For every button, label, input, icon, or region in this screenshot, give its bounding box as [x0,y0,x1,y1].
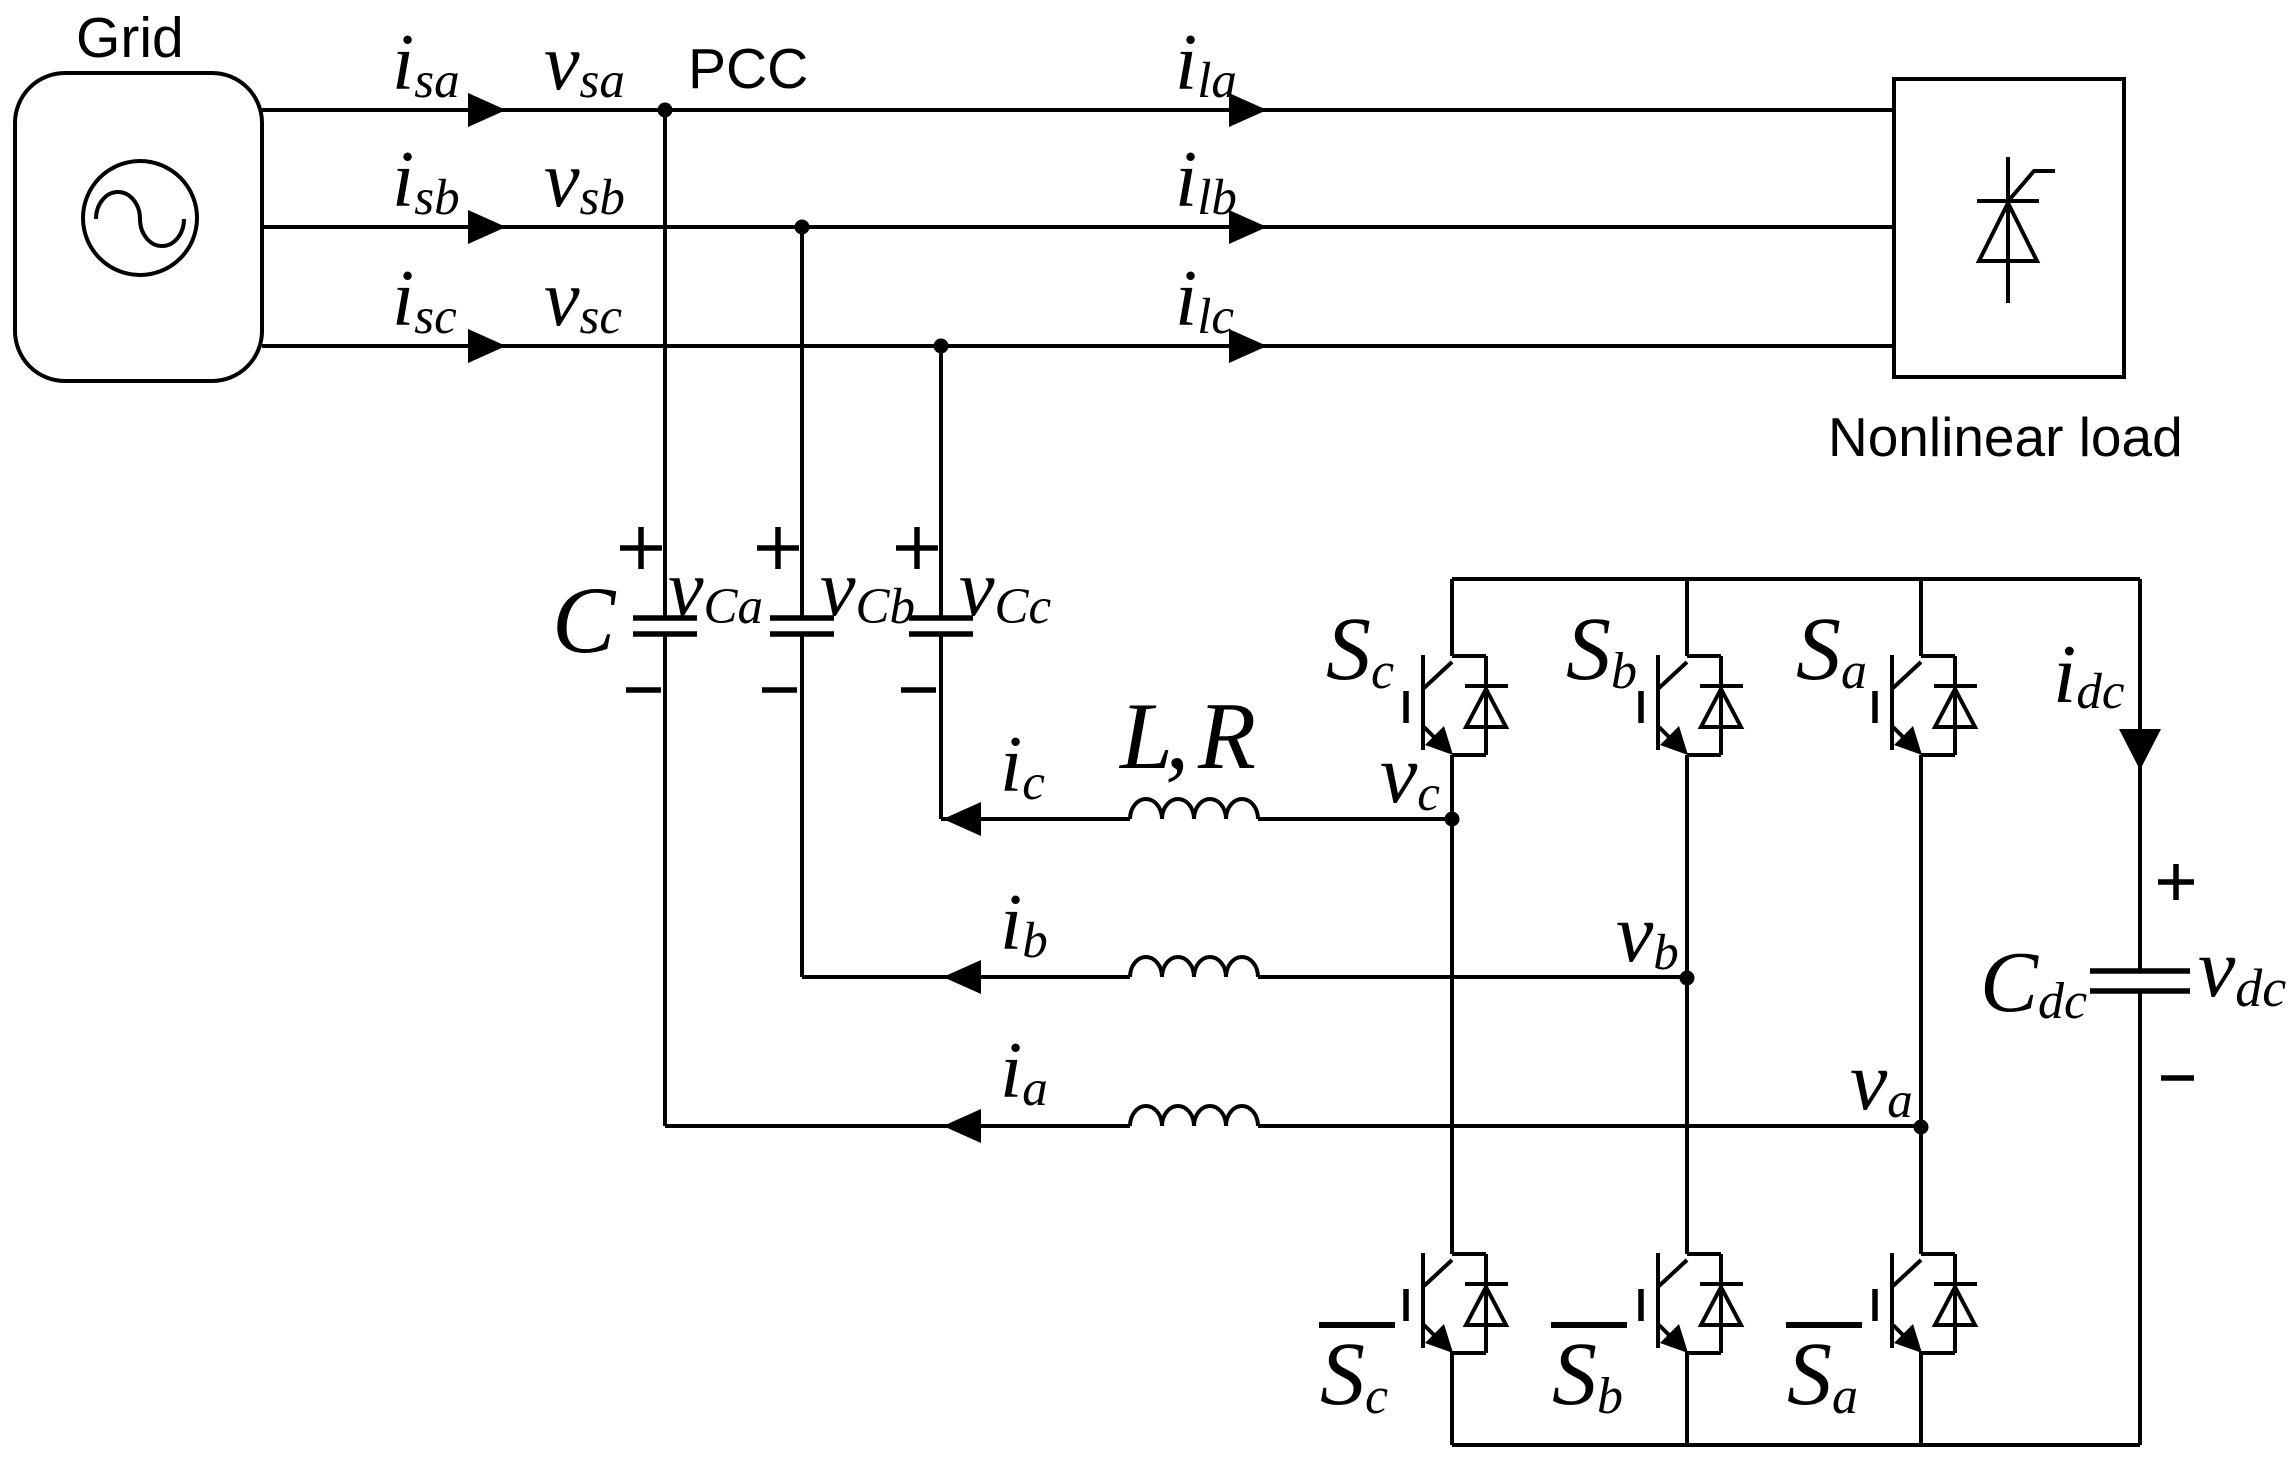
current arrow i_a [943,1109,981,1143]
wire filter line b [802,975,1687,979]
svg-text:C: C [552,567,617,673]
capacitor C phase c [909,618,973,634]
wire branch b down [800,227,804,977]
current arrow i_la [1229,93,1267,127]
node v_a dot [1914,1120,1929,1135]
node v_c dot [1445,812,1460,827]
current arrow i_b [943,960,981,994]
node phase b junction dot [795,220,810,235]
svg-text:Nonlinear load: Nonlinear load [1828,406,2183,468]
minus sign cap a [626,687,661,693]
inductor L phase b [1130,957,1258,977]
minus sign cap c [901,687,936,693]
current arrow i_lb [1229,210,1267,244]
thyristor inside load [1977,157,2055,303]
plus sign cap a [620,527,662,569]
svg-text:PCC: PCC [688,37,808,101]
plus sign dc [2158,864,2194,900]
current arrow i_lc [1229,329,1267,363]
wire inverter leg a [1919,579,1923,1445]
inductor L phase c [1130,799,1258,819]
node v_b dot [1680,971,1695,986]
AC source symbol [83,161,197,275]
current arrow i_sc [468,329,506,363]
wire inverter leg c [1450,579,1454,1445]
wire top dc bus [1452,577,2140,581]
wire filter line a [665,1124,1921,1128]
minus sign cap b [762,687,797,693]
wire filter line c [941,817,1452,821]
plus sign cap b [757,527,799,569]
node PCC dot [658,103,673,118]
svg-text:L, R: L, R [1118,683,1256,789]
label Sa-bar [1786,1325,1862,1425]
wire right dc rail [2138,579,2142,1445]
capacitor C_dc [2090,971,2190,991]
grid source box [15,73,262,381]
svg-text:Grid: Grid [76,6,184,70]
IGBT switch Sa-bar with diode [1875,1253,1977,1353]
IGBT switch Sb with diode [1641,655,1743,755]
minus sign dc [2161,1075,2194,1081]
wire branch c down [939,346,943,819]
wire PCC branch a down [663,110,667,1126]
wire phase c [262,344,1894,348]
capacitor C phase a [633,618,697,634]
current arrow i_sa [468,93,506,127]
wire bottom dc bus [1452,1443,2140,1447]
wire phase b [262,225,1894,229]
inductor L phase a [1130,1106,1258,1126]
IGBT switch Sc-bar with diode [1406,1253,1508,1353]
IGBT switch Sb-bar with diode [1641,1253,1743,1353]
IGBT switch Sa with diode [1875,655,1977,755]
current arrow i_c [943,802,981,836]
node phase c junction dot [934,339,949,354]
nonlinear load box [1894,79,2124,377]
label Sb-bar [1551,1325,1627,1425]
wire inverter leg b [1685,579,1689,1445]
plus sign cap c [896,527,938,569]
wire phase a [262,108,1894,112]
current arrow i_dc [2119,729,2161,770]
IGBT switch Sc with diode [1406,655,1508,755]
current arrow i_sb [468,210,506,244]
capacitor C phase b [770,618,834,634]
label Sc-bar [1319,1325,1395,1425]
